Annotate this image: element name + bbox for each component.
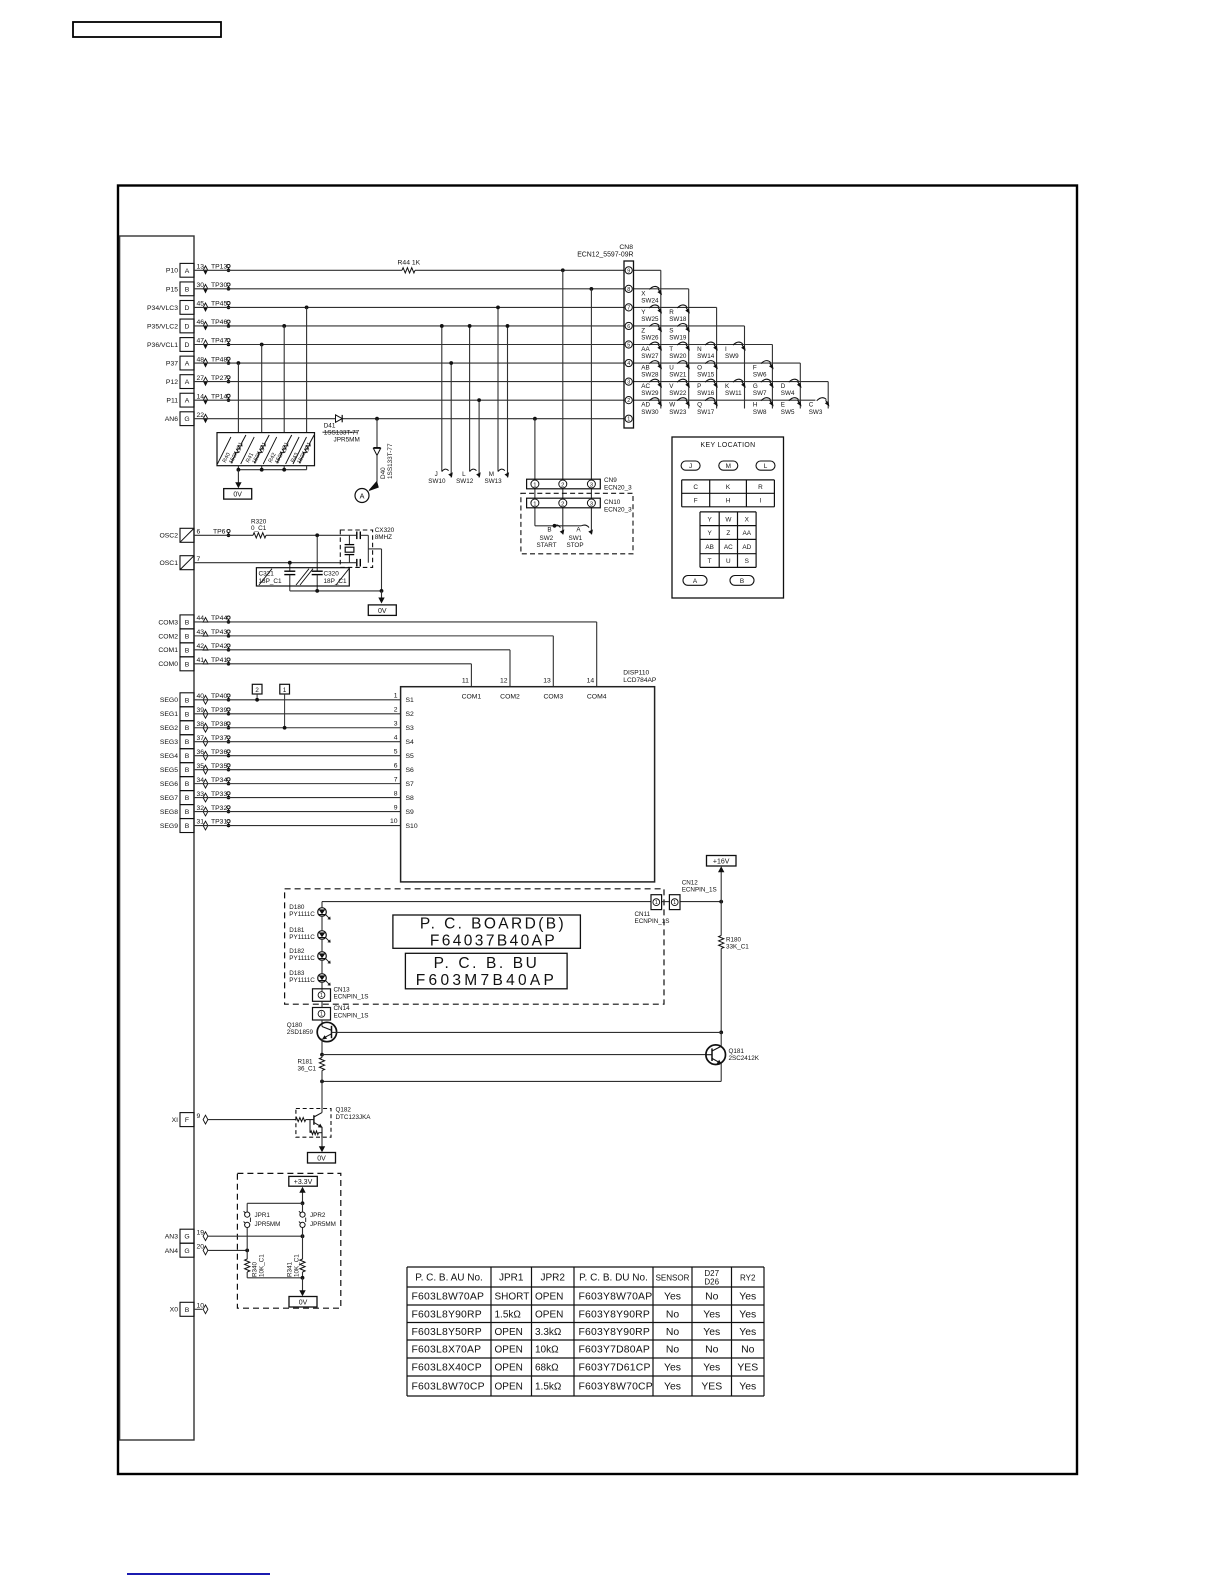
- svg-text:6: 6: [197, 529, 201, 536]
- svg-text:X: X: [745, 516, 750, 523]
- switch SW17 key Q: [697, 398, 718, 416]
- wire SEG2 to LCD S3: [194, 727, 401, 729]
- svg-text:48: 48: [197, 356, 205, 363]
- footer link line: [127, 1573, 270, 1575]
- switch SW25 key Y: [641, 305, 662, 323]
- svg-text:3.3kΩ: 3.3kΩ: [535, 1327, 562, 1338]
- svg-text:B: B: [185, 711, 190, 718]
- svg-text:9: 9: [627, 268, 630, 274]
- resistor R181 36_C1: [298, 1055, 325, 1109]
- pin SEG3 (pin 37): [160, 735, 230, 749]
- svg-text:Yes: Yes: [739, 1382, 756, 1393]
- switch SW2 START key B: [537, 524, 565, 549]
- svg-text:TP46: TP46: [211, 319, 227, 326]
- svg-text:R341: R341: [287, 1261, 294, 1277]
- svg-text:COM1: COM1: [462, 693, 482, 700]
- svg-text:OPEN: OPEN: [495, 1345, 523, 1356]
- switch SW27 key AA: [641, 342, 662, 360]
- connector CN9 ECN20_3: [527, 477, 633, 491]
- switch SW19 key S: [669, 324, 690, 342]
- svg-text:I: I: [760, 498, 762, 505]
- svg-text:TP34: TP34: [211, 777, 227, 784]
- legend table Y W X / Y Z AA / AB AC AD / T U S: [700, 512, 756, 568]
- wire row P15 to CN8: [194, 288, 624, 290]
- svg-text:SEG7: SEG7: [160, 795, 178, 802]
- transistor Q182 DTC123JKA: [293, 1107, 372, 1149]
- svg-text:68kΩ: 68kΩ: [535, 1363, 559, 1374]
- wire row P34/VLC3 right of CN8: [634, 306, 717, 308]
- junction OSC2/C320: [315, 533, 319, 537]
- legend key oval J: [681, 461, 700, 470]
- option link 1: [280, 684, 290, 729]
- LCD module DISP110 LCD784AP: [401, 670, 657, 882]
- svg-text:F603Y8W70AP: F603Y8W70AP: [579, 1292, 653, 1303]
- svg-text:RY2: RY2: [740, 1274, 756, 1283]
- pin SEG7 (pin 33): [160, 791, 230, 805]
- wire CN11 to CN12: [662, 901, 670, 903]
- switch SW28 key AB: [641, 361, 662, 379]
- svg-text:1SS133T-77: 1SS133T-77: [324, 429, 360, 436]
- wire P10 to CN9 pin2: [561, 268, 565, 272]
- svg-text:ECNPIN_1S: ECNPIN_1S: [334, 1012, 369, 1019]
- svg-text:H: H: [753, 402, 758, 409]
- svg-text:J: J: [435, 471, 438, 478]
- svg-text:D26: D26: [704, 1278, 719, 1287]
- svg-text:ECNPIN_1S: ECNPIN_1S: [635, 918, 670, 925]
- svg-text:TP27: TP27: [211, 375, 227, 382]
- svg-text:B: B: [185, 647, 190, 654]
- ground 0V (oscillator): [368, 605, 396, 616]
- svg-text:SW27: SW27: [641, 353, 659, 360]
- svg-text:3: 3: [627, 380, 630, 386]
- diode D41 1SS133T-77 JPR5MM: [323, 415, 360, 444]
- svg-text:SW29: SW29: [641, 390, 659, 397]
- svg-text:JPR5MM: JPR5MM: [310, 1221, 336, 1228]
- svg-text:TP43: TP43: [211, 629, 227, 636]
- power +16V: [707, 856, 737, 902]
- svg-text:36_C1: 36_C1: [298, 1065, 317, 1072]
- switch SW21 key U: [669, 361, 690, 379]
- switch SW1 STOP key A: [567, 525, 593, 549]
- svg-text:D182: D182: [289, 948, 305, 955]
- pin SEG1 (pin 39): [160, 707, 230, 721]
- svg-text:B: B: [740, 578, 744, 585]
- svg-text:P. C. B. AU No.: P. C. B. AU No.: [415, 1273, 483, 1284]
- wire COM2 to LCD COM3: [194, 635, 553, 637]
- svg-text:150K_C1: 150K_C1: [274, 442, 290, 465]
- svg-text:F603L8Y50RP: F603L8Y50RP: [412, 1327, 482, 1338]
- pin OSC2 (pin 6): [159, 528, 230, 542]
- svg-text:ECN12_5597-09R: ECN12_5597-09R: [577, 252, 633, 259]
- svg-text:C320: C320: [324, 570, 340, 577]
- svg-text:SEG3: SEG3: [160, 739, 178, 746]
- pin P11 (pin 14): [166, 393, 230, 407]
- svg-text:P15: P15: [166, 286, 178, 293]
- wire SEG1 to LCD S2: [194, 713, 401, 715]
- wire oscillator ground rail: [290, 590, 382, 592]
- svg-text:2: 2: [394, 706, 398, 713]
- svg-text:SW22: SW22: [669, 390, 687, 397]
- svg-text:JPR5MM: JPR5MM: [255, 1221, 281, 1228]
- svg-text:B: B: [185, 739, 190, 746]
- svg-text:SW12: SW12: [456, 478, 474, 485]
- resistor R180 33K_C1: [719, 902, 750, 1033]
- svg-text:TP44: TP44: [211, 615, 227, 622]
- wire row P36/VCL1 right of CN8: [634, 344, 773, 346]
- svg-text:P10: P10: [166, 268, 178, 275]
- pin SEG9 (pin 31): [160, 819, 230, 833]
- svg-text:0V: 0V: [299, 1300, 308, 1307]
- junction OSC1/C321: [288, 561, 292, 565]
- svg-text:No: No: [741, 1345, 755, 1356]
- wire OSC1 to crystal: [194, 562, 356, 564]
- svg-text:B: B: [185, 753, 190, 760]
- svg-text:Z: Z: [726, 530, 730, 537]
- svg-text:9: 9: [197, 1113, 201, 1120]
- capacitor box C320/C321 labels: [256, 568, 349, 586]
- svg-text:Yes: Yes: [664, 1382, 681, 1393]
- svg-text:No: No: [705, 1292, 719, 1303]
- wire key-matrix column 4: [744, 326, 746, 409]
- pin P10 (pin 13): [166, 263, 230, 277]
- switch SW15 key O: [697, 361, 718, 379]
- wire CN9 to CN10 pin3: [590, 489, 592, 498]
- svg-text:Z: Z: [641, 327, 645, 334]
- resistor R340 10K_C1: [245, 1254, 266, 1278]
- svg-text:A: A: [185, 398, 190, 405]
- svg-text:F603Y8Y90RP: F603Y8Y90RP: [579, 1327, 651, 1338]
- svg-text:Yes: Yes: [739, 1292, 756, 1303]
- svg-text:6: 6: [627, 324, 630, 330]
- svg-text:D: D: [185, 323, 190, 330]
- wire key-matrix column 2: [688, 289, 690, 409]
- svg-text:G: G: [753, 383, 758, 390]
- switch SW7 key G: [753, 379, 774, 397]
- svg-text:F64037B40AP: F64037B40AP: [430, 933, 557, 950]
- svg-text:B: B: [185, 795, 190, 802]
- junction Q180 emitter / Q181 base: [320, 1053, 324, 1057]
- wire AN6 to D40: [375, 417, 379, 421]
- pin SEG2 (pin 38): [160, 721, 230, 735]
- svg-text:22: 22: [197, 412, 205, 419]
- svg-text:1: 1: [283, 687, 287, 694]
- svg-text:OSC1: OSC1: [159, 560, 178, 567]
- wire key-matrix column 1: [660, 270, 662, 408]
- wire CN13 to CN14: [321, 1001, 323, 1007]
- svg-text:SW18: SW18: [669, 316, 687, 323]
- svg-text:TP32: TP32: [211, 805, 227, 812]
- wire row P10 to CN8: [194, 269, 402, 271]
- svg-text:0V: 0V: [317, 1156, 326, 1163]
- svg-text:AB: AB: [705, 544, 714, 551]
- wire CN12 to +16V node: [680, 901, 721, 903]
- wire CN10 pin3 to SW1: [590, 508, 592, 535]
- svg-text:1: 1: [627, 417, 630, 423]
- wire COM3 to LCD COM4: [194, 621, 597, 623]
- wire AN4 to JPR1/R340: [208, 1249, 247, 1251]
- dashed enclosure CN10/SW1/SW2: [521, 493, 633, 554]
- svg-text:F603L8W70AP: F603L8W70AP: [412, 1292, 485, 1303]
- wire CN9 to CN10 pin2: [562, 489, 564, 498]
- dashed enclosure JPR1/JPR2: [237, 1173, 340, 1308]
- pin X1 (pin 9): [172, 1113, 208, 1127]
- svg-text:33K_C1: 33K_C1: [726, 943, 749, 950]
- svg-text:CN14: CN14: [334, 1005, 351, 1012]
- switch SW4 key D: [781, 379, 802, 397]
- resistor array R40 R41 R42 R43 150K: [217, 433, 316, 466]
- svg-text:A: A: [360, 491, 365, 500]
- svg-text:OPEN: OPEN: [495, 1363, 523, 1374]
- svg-text:TP47: TP47: [211, 338, 227, 345]
- junction R181/rail: [320, 1080, 324, 1084]
- svg-text:8MHZ: 8MHZ: [375, 534, 392, 541]
- svg-text:CN9: CN9: [604, 477, 617, 484]
- svg-text:7: 7: [197, 556, 201, 563]
- svg-text:AB: AB: [641, 364, 649, 371]
- svg-text:SEG0: SEG0: [160, 697, 178, 704]
- wire Q181 base: [322, 1054, 706, 1056]
- wire CN10 pin2 to SW2: [562, 508, 564, 535]
- svg-text:X: X: [641, 290, 646, 297]
- switch SW11 key K: [725, 379, 746, 397]
- svg-text:KEY LOCATION: KEY LOCATION: [700, 442, 755, 449]
- svg-text:T: T: [669, 346, 673, 353]
- wire row AN6 to CN8: [194, 418, 624, 420]
- svg-text:10kΩ: 10kΩ: [535, 1345, 559, 1356]
- svg-text:SW10: SW10: [428, 478, 446, 485]
- svg-text:SEG1: SEG1: [160, 711, 178, 718]
- svg-text:N: N: [697, 346, 702, 353]
- pin COM3 (pin 44): [158, 615, 230, 629]
- svg-text:ECN20_3: ECN20_3: [604, 485, 632, 492]
- svg-text:JPR5MM: JPR5MM: [334, 436, 360, 443]
- wire SEG6 to LCD S7: [194, 783, 401, 785]
- svg-text:10K_C1: 10K_C1: [294, 1254, 301, 1277]
- connector CN8 ECN12_5597-09R: [577, 244, 633, 428]
- svg-text:F603L8X70AP: F603L8X70AP: [412, 1345, 482, 1356]
- svg-text:PY1111C: PY1111C: [289, 955, 315, 962]
- svg-text:STOP: STOP: [567, 542, 584, 549]
- wire AN3 to JPR2/R341: [208, 1235, 303, 1237]
- LED D181 PY1111C: [289, 927, 330, 949]
- svg-text:S10: S10: [406, 823, 418, 830]
- svg-text:S3: S3: [406, 725, 415, 732]
- svg-text:TP33: TP33: [211, 791, 227, 798]
- svg-text:B: B: [185, 633, 190, 640]
- KEY LOCATION legend box: [672, 437, 784, 598]
- svg-text:CX320: CX320: [375, 527, 395, 534]
- switch SW16 key P: [697, 379, 718, 397]
- switch SW12 key L: [456, 469, 481, 485]
- schematic border frame: [118, 186, 1077, 1475]
- svg-text:SW8: SW8: [753, 409, 767, 416]
- svg-text:B: B: [547, 527, 551, 534]
- svg-text:L: L: [462, 471, 466, 478]
- svg-text:D180: D180: [289, 904, 305, 911]
- svg-text:C321: C321: [259, 570, 275, 577]
- svg-text:1: 1: [394, 693, 398, 700]
- resistor R320 0_C1: [251, 518, 267, 538]
- svg-text:Y: Y: [707, 516, 712, 523]
- svg-text:B: B: [185, 781, 190, 788]
- svg-text:P35/VLC2: P35/VLC2: [147, 323, 178, 330]
- wire row P37 right of CN8: [634, 362, 801, 364]
- svg-text:JPR1: JPR1: [255, 1212, 271, 1219]
- svg-text:B: B: [185, 619, 190, 626]
- wire Q180 base to R180 node: [332, 1031, 722, 1033]
- svg-text:Yes: Yes: [739, 1309, 756, 1320]
- svg-text:M: M: [726, 463, 731, 470]
- wire SEG8 to LCD S9: [194, 811, 401, 813]
- svg-text:CN12: CN12: [682, 880, 699, 887]
- option table P.C.B. AU/DU: [407, 1267, 764, 1396]
- svg-text:B: B: [185, 697, 190, 704]
- svg-text:B: B: [185, 823, 190, 830]
- pin SEG0 (pin 40): [160, 693, 230, 707]
- wire SEG4 to LCD S5: [194, 755, 401, 757]
- wire R40-R42 commons to 0V: [237, 466, 239, 470]
- svg-text:Q181: Q181: [729, 1048, 745, 1055]
- svg-text:YES: YES: [737, 1363, 758, 1374]
- svg-text:D: D: [781, 383, 786, 390]
- svg-text:S1: S1: [406, 697, 415, 704]
- capacitor C321 18P_C1: [284, 563, 295, 591]
- wire key-matrix column 6: [799, 363, 801, 408]
- svg-text:SW20: SW20: [669, 353, 687, 360]
- pin SEG5 (pin 35): [160, 763, 230, 777]
- svg-text:TP6: TP6: [213, 529, 226, 536]
- wire P15 to CN9 pin3: [590, 287, 594, 291]
- svg-text:F: F: [185, 1117, 189, 1124]
- svg-text:G: G: [184, 416, 189, 423]
- svg-text:U: U: [726, 558, 731, 565]
- svg-text:S5: S5: [406, 753, 415, 760]
- ground 0V (JPR block): [289, 1297, 317, 1308]
- svg-text:D181: D181: [289, 927, 305, 934]
- wire SEG0 to LCD S1: [194, 699, 401, 701]
- svg-text:46: 46: [197, 319, 205, 326]
- svg-text:TP48: TP48: [211, 356, 227, 363]
- legend key oval L: [756, 461, 775, 470]
- wire row P12 right of CN8: [634, 381, 829, 383]
- svg-text:SW2: SW2: [540, 535, 554, 542]
- svg-text:SW17: SW17: [697, 409, 715, 416]
- svg-text:S: S: [745, 558, 749, 565]
- svg-text:5: 5: [627, 343, 630, 349]
- node A (off-page arrow): [355, 481, 379, 503]
- svg-text:P. C. B. DU No.: P. C. B. DU No.: [579, 1273, 648, 1284]
- connector CN12 ECNPIN_1S: [669, 880, 716, 910]
- wire row P35/VLC2 right of CN8: [634, 325, 745, 327]
- label box P.C. BOARD(B) F64037B40AP: [393, 915, 581, 950]
- svg-text:6: 6: [394, 762, 398, 769]
- wire CN9 to CN10 pin1: [534, 489, 536, 498]
- svg-text:Yes: Yes: [703, 1363, 720, 1374]
- switch SW10 key J: [428, 469, 453, 485]
- svg-text:JPR2: JPR2: [310, 1212, 326, 1219]
- svg-text:S: S: [669, 327, 673, 334]
- svg-text:F603M7B40AP: F603M7B40AP: [416, 972, 557, 989]
- pin X0 (pin 10): [170, 1302, 208, 1316]
- svg-text:CN11: CN11: [635, 911, 651, 918]
- wire column to SW10: [441, 326, 443, 472]
- svg-text:TP40: TP40: [211, 693, 227, 700]
- svg-text:OPEN: OPEN: [495, 1327, 523, 1338]
- svg-text:SW21: SW21: [669, 372, 687, 379]
- wire row P34/VLC3 to CN8: [194, 306, 624, 308]
- svg-text:M: M: [489, 471, 494, 478]
- wire row P12 to CN8: [194, 381, 624, 383]
- svg-text:B: B: [185, 767, 190, 774]
- wire LED chain segments: [321, 916, 323, 930]
- svg-text:U: U: [669, 364, 674, 371]
- svg-text:0V: 0V: [233, 492, 242, 499]
- svg-text:Yes: Yes: [664, 1292, 681, 1303]
- LED D182 PY1111C: [289, 948, 330, 970]
- svg-text:45: 45: [197, 301, 205, 308]
- wire row P36/VCL1 to CN8: [194, 344, 624, 346]
- svg-text:10: 10: [390, 818, 398, 825]
- transistor Q180 2SD1859: [287, 1022, 337, 1054]
- svg-text:TP30: TP30: [211, 282, 227, 289]
- svg-text:1: 1: [673, 900, 676, 906]
- svg-text:P34/VLC3: P34/VLC3: [147, 305, 178, 312]
- legend key oval M: [719, 461, 738, 470]
- wire crystal case to 0V: [368, 548, 381, 550]
- svg-text:SENSOR: SENSOR: [656, 1274, 690, 1283]
- svg-text:F603Y7D61CP: F603Y7D61CP: [579, 1363, 651, 1374]
- switch SW8 key H: [753, 398, 774, 416]
- switch SW14 key N: [697, 342, 718, 360]
- svg-text:2SC2412K: 2SC2412K: [729, 1055, 760, 1062]
- pin P12 (pin 27): [166, 375, 230, 389]
- svg-text:SW30: SW30: [641, 409, 659, 416]
- wire COM0 to LCD COM1: [194, 663, 471, 665]
- svg-text:SW25: SW25: [641, 316, 659, 323]
- svg-text:START: START: [537, 542, 557, 549]
- svg-text:B: B: [185, 286, 190, 293]
- svg-text:F603L8W70CP: F603L8W70CP: [412, 1382, 485, 1393]
- svg-text:X0: X0: [170, 1307, 179, 1314]
- svg-text:8: 8: [627, 287, 630, 293]
- svg-text:S8: S8: [406, 795, 415, 802]
- svg-text:18P_C1: 18P_C1: [324, 578, 348, 585]
- pin P35/VLC2 (pin 46): [147, 319, 230, 333]
- svg-text:C: C: [693, 484, 698, 491]
- svg-text:B: B: [185, 725, 190, 732]
- wire row P35/VLC2 to CN8: [194, 325, 624, 327]
- svg-text:SW3: SW3: [809, 409, 823, 416]
- switch SW22 key V: [669, 379, 690, 397]
- svg-text:Yes: Yes: [664, 1363, 681, 1374]
- svg-text:OPEN: OPEN: [535, 1292, 563, 1303]
- wire Q181 emitter rail: [322, 1080, 721, 1082]
- svg-text:K: K: [725, 383, 730, 390]
- svg-text:R180: R180: [726, 936, 742, 943]
- switch SW23 key W: [669, 398, 690, 416]
- svg-text:1: 1: [533, 501, 536, 507]
- wire column to SW12 right: [478, 400, 480, 477]
- svg-text:30: 30: [197, 282, 205, 289]
- wire AN6 to CN9 pin1: [533, 417, 537, 421]
- svg-text:150K_C1: 150K_C1: [252, 442, 268, 465]
- power +3.3V: [289, 1176, 318, 1203]
- svg-text:1: 1: [320, 1012, 323, 1018]
- wire row P37 to CN8: [194, 362, 624, 364]
- svg-text:F603Y8Y90RP: F603Y8Y90RP: [579, 1309, 651, 1320]
- svg-text:COM3: COM3: [543, 693, 563, 700]
- svg-text:CN8: CN8: [619, 244, 633, 251]
